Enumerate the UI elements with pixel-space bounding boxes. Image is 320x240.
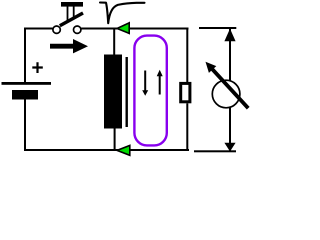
- secondary coil loop (purple): [134, 36, 166, 146]
- switch S1 handle stem right: [73, 6, 75, 18]
- wire left vertical (battery top lead): [24, 28, 26, 83]
- galvanometer branch vertical wire with double arrow: shaft: [229, 29, 231, 151]
- transient current graph curve: [100, 3, 145, 24]
- switch S1 lever arm: [60, 13, 83, 26]
- wire bottom horizontal (primary circuit): [24, 149, 189, 151]
- double arrow head down: [224, 143, 235, 152]
- switch S1 contact circle right: [74, 26, 81, 33]
- green current arrow bottom (pointing left): [117, 145, 130, 155]
- wire resistor bottom lead: [186, 103, 188, 150]
- electromagnet coil return wire (thin line right of bar): [126, 57, 128, 127]
- wire battery bottom lead: [24, 100, 26, 150]
- galvanometer needle arrowhead: [206, 62, 217, 73]
- battery B1 plus label: [32, 62, 43, 73]
- wire bottom horizontal right segment (galvanometer branch): [194, 150, 236, 152]
- wire resistor top lead: [186, 28, 188, 82]
- wire top horizontal left segment (to switch contact): [24, 28, 53, 30]
- wire top horizontal mid segment (switch to resistor corner): [81, 28, 189, 30]
- switch S1 handle cap: [61, 2, 83, 7]
- node junction wire down to electromagnet top: [113, 29, 115, 55]
- electromagnet coil bar (solid): [104, 55, 122, 129]
- wire top horizontal right segment (galvanometer branch): [199, 27, 236, 29]
- induced current arrow down (inside loop): [142, 71, 148, 96]
- battery B1 positive plate (long thin): [2, 82, 52, 85]
- switch S1 handle stem left: [67, 6, 69, 22]
- resistor R1: [181, 83, 190, 101]
- galvanometer G1 body: [212, 80, 240, 108]
- current direction arrow (primary circuit): [50, 39, 88, 53]
- green current arrow top (pointing left): [117, 23, 129, 34]
- wire electromagnet bottom lead: [114, 129, 116, 152]
- battery B1 negative plate (short thick): [12, 90, 38, 100]
- induced current arrow up (inside loop): [157, 70, 163, 95]
- galvanometer needle shaft: [212, 68, 249, 108]
- double arrow head up: [224, 29, 235, 42]
- switch S1 contact circle left: [53, 26, 60, 33]
